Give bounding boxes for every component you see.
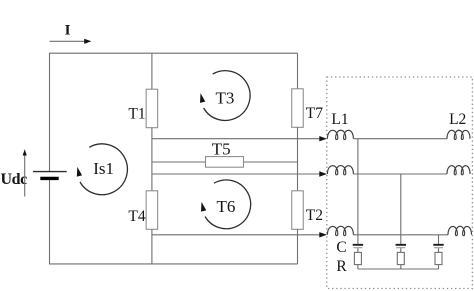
wire right rail top [297,53,299,89]
wire shunt branch 1 vertical [357,139,359,244]
wire phase C [152,234,320,236]
capacitor C1 [353,245,363,253]
wire filter bottom bus [358,268,439,270]
loop T6 [205,180,251,229]
wire inner rail mid [151,128,153,191]
arrow Udc polarity [23,149,27,196]
battery Udc plate + [33,171,67,173]
wire inner rail top [151,53,153,89]
transistor T4 [146,191,158,230]
inductor L1 phase B [327,166,353,175]
svg-text:T7: T7 [306,105,323,122]
svg-text:T3: T3 [216,88,235,107]
wire top bus [50,52,298,54]
arrow phase A [319,136,327,141]
resistor R3 [435,252,442,269]
filter boundary box (dotted) [327,77,473,289]
wire phase A mid [353,138,447,140]
transistor T7 [292,89,304,128]
inductor L1 phase A [327,130,353,139]
resistor R2 [397,252,404,269]
svg-text:L2: L2 [449,111,466,128]
arrow phase C [319,232,327,237]
svg-text:T6: T6 [217,197,236,216]
loop Is1 [80,144,127,195]
wire right rail mid [297,127,299,191]
wire phase B [152,173,320,175]
arrow phase B [319,171,327,176]
wire bottom bus [49,263,298,265]
svg-text:T1: T1 [128,105,145,122]
capacitor C2 [396,245,406,253]
wire shunt branch 3 vertical [438,235,440,244]
wire shunt branch 2 vertical [400,174,402,244]
loop T3 [204,71,250,121]
arrow I [50,39,92,44]
svg-text:C: C [336,239,346,256]
wire left rail upper [49,53,51,172]
wire inner rail bottom [151,229,153,264]
inductor L2 phase C [448,226,472,235]
battery Udc plate - [40,177,58,180]
wire T5 branch [152,161,298,163]
svg-text:T2: T2 [306,207,323,224]
svg-text:R: R [336,258,347,275]
transistor T1 [146,89,158,128]
transistor T2 [292,191,304,230]
svg-text:Udc: Udc [1,171,28,188]
wire left rail lower [49,178,51,264]
wire phase A [152,138,320,140]
inductor L2 phase A [447,130,470,139]
wire phase B mid [353,173,447,175]
svg-text:Is1: Is1 [93,159,114,178]
svg-text:I: I [65,23,71,39]
capacitor C3 [433,245,443,253]
transistor T5 [206,157,244,168]
svg-text:L1: L1 [331,111,348,128]
wire phase C mid [353,234,448,236]
inductor L2 phase B [447,166,470,175]
inductor L1 phase C [327,226,353,235]
svg-text:T5: T5 [212,139,231,158]
svg-text:T4: T4 [128,208,145,225]
wire right rail bottom [297,229,299,264]
resistor R1 [354,252,361,269]
